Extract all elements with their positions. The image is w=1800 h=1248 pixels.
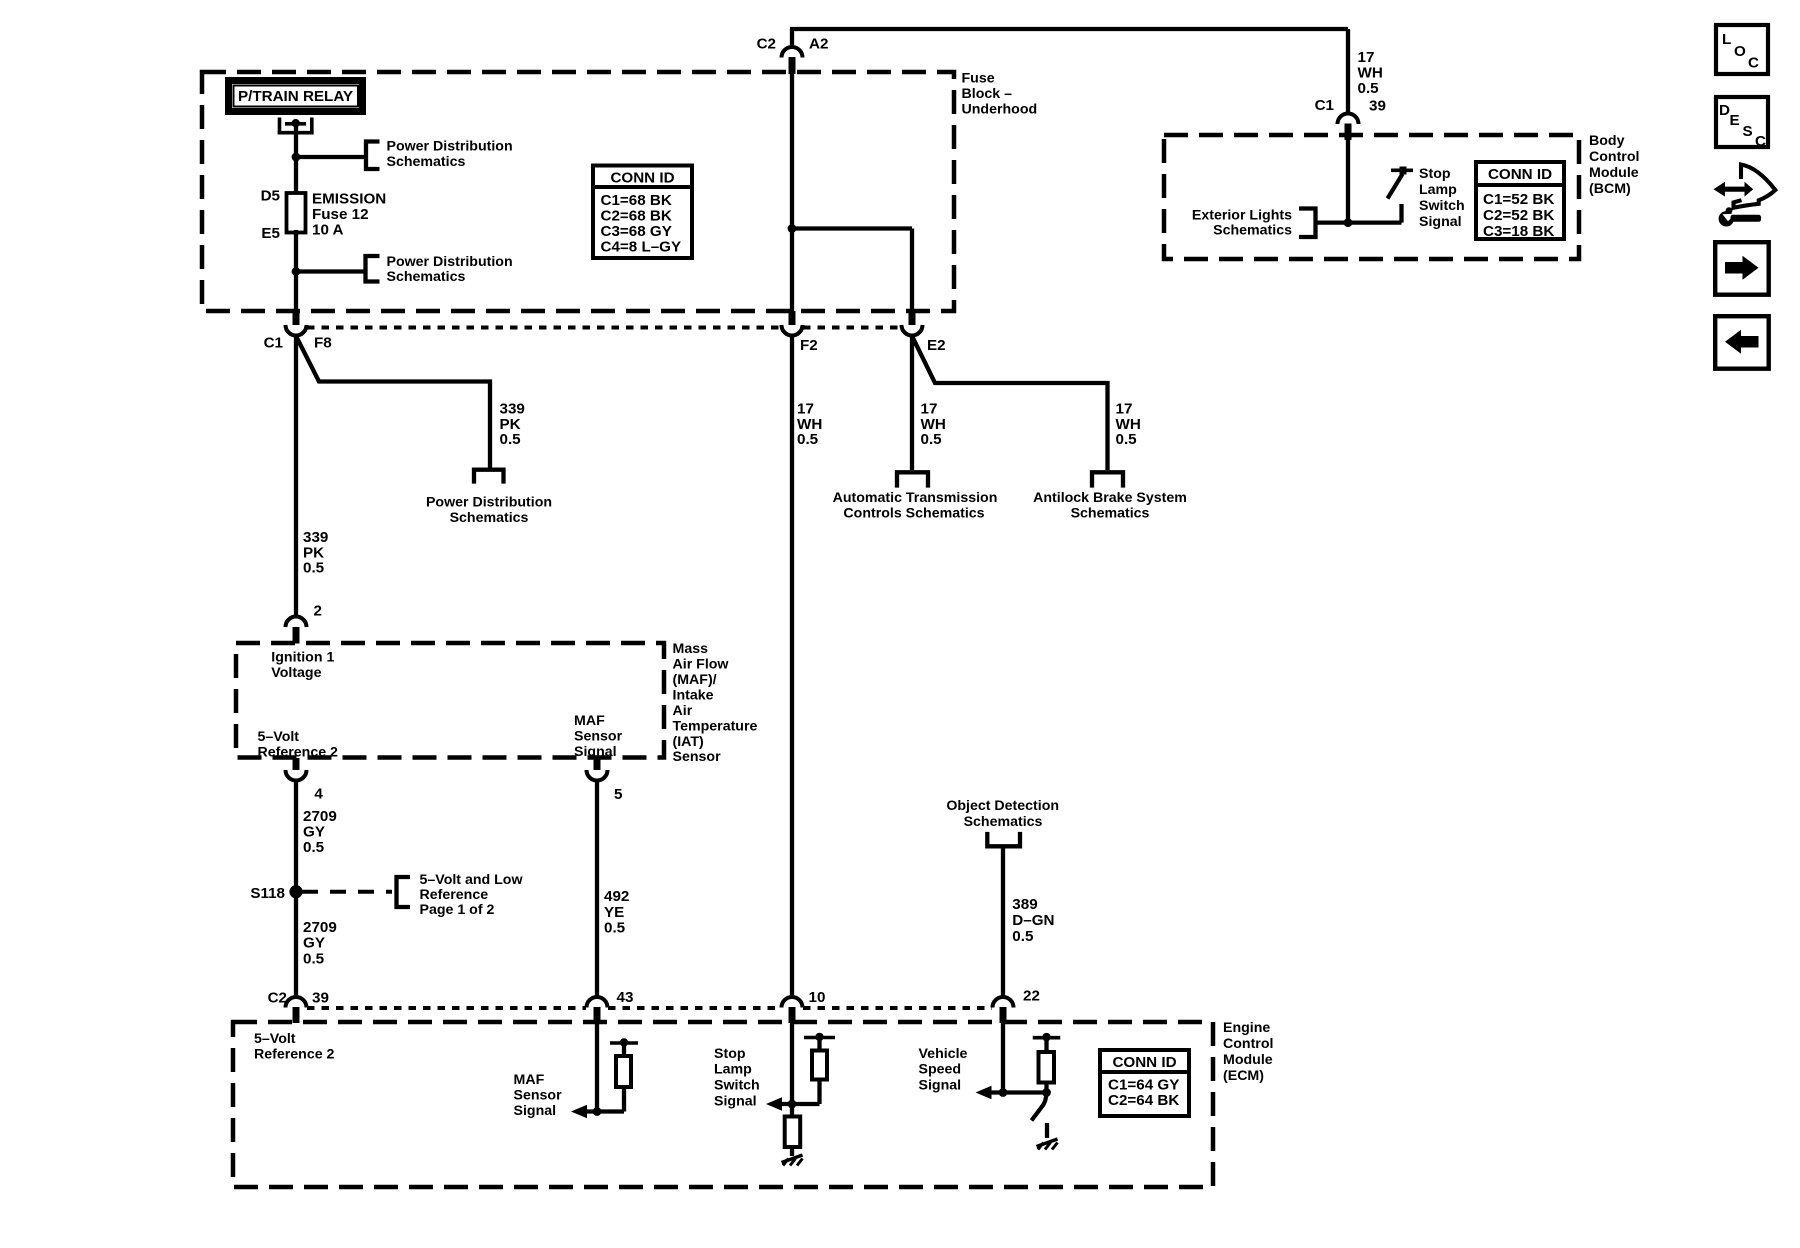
svg-text:0.5: 0.5 (303, 560, 325, 577)
svg-text:Intake: Intake (673, 688, 714, 704)
wire: splice reference (dashed) (302, 890, 392, 894)
svg-text:CONN ID: CONN ID (1488, 166, 1552, 183)
svg-text:C1: C1 (264, 335, 284, 352)
svg-text:C1=64 GY: C1=64 GY (1108, 1077, 1179, 1094)
svg-text:Air Flow: Air Flow (673, 657, 730, 673)
off-page bracket: Power Distribution (upper) (366, 142, 380, 170)
wire: branch over to E2 (792, 229, 912, 313)
svg-text:GY: GY (303, 824, 325, 841)
connector: MAF pin 5 (cup) (587, 770, 608, 781)
svg-text:(IAT): (IAT) (673, 734, 705, 750)
svg-text:Signal: Signal (514, 1103, 557, 1119)
resistor: stop lamp pull-down (785, 1117, 801, 1148)
off-page bracket: 5-Volt and Low Reference (397, 877, 411, 907)
label: circuit 17 WH 0.5 (top right wire) (1358, 49, 1383, 97)
svg-text:Sensor: Sensor (673, 749, 722, 765)
arrow: stop lamp switch signal (points left) (766, 1097, 782, 1111)
icon: diagnostic double-arrow (1714, 182, 1754, 197)
wire: ECM pin 43 to comparator (595, 1023, 599, 1112)
label: circuit 339 PK 0.5 (branch) (500, 401, 525, 449)
wire: BCM internal from C1-39 down to junction (1346, 138, 1350, 223)
svg-text:Schematics: Schematics (450, 510, 529, 526)
node: junction to E2 branch (788, 224, 797, 233)
svg-text:Sensor: Sensor (514, 1088, 563, 1104)
supply: internal voltage (pin 22) (1033, 1033, 1061, 1041)
svg-text:C1=68 BK: C1=68 BK (601, 192, 672, 209)
svg-text:Sensor: Sensor (574, 729, 623, 745)
svg-text:WH: WH (1358, 65, 1383, 82)
fuse EMISSION Fuse 12 10A (body) (287, 193, 306, 233)
svg-text:P/TRAIN RELAY: P/TRAIN RELAY (238, 88, 353, 105)
connector C1 terminal F8 (cup) (286, 325, 307, 336)
label: 5-Volt Reference 2 (ECM) (254, 1031, 335, 1063)
node: MAF signal junction (593, 1107, 602, 1116)
connector row: fuse block bottom (dotted) (307, 326, 901, 330)
splice S118 (289, 885, 302, 898)
connector E2 (cup) (902, 325, 923, 336)
pin: MAF pin 4 male terminal (293, 758, 300, 770)
svg-text:D: D (1719, 102, 1730, 119)
pin: ECM 43 male terminal (594, 1007, 601, 1023)
pin: fuse block C2-A2 male terminal (789, 57, 796, 74)
svg-text:Controls Schematics: Controls Schematics (843, 506, 984, 522)
wire: battery positive feed from C2/A2 to BCM C1 (top run) (790, 29, 1348, 113)
wire: resistor to supply (pin 10) (817, 1038, 821, 1051)
svg-text:0.5: 0.5 (303, 839, 325, 856)
label: circuit 389 D-GN 0.5 (1012, 896, 1054, 945)
wire: MAF signal arrow line (584, 1109, 624, 1113)
label: Mass Air Flow (MAF)/ Intake Air Temperature (IAT) Sensor (673, 641, 758, 765)
svg-text:Engine: Engine (1223, 1020, 1270, 1036)
svg-text:5: 5 (614, 786, 623, 803)
svg-text:389: 389 (1012, 896, 1037, 913)
label: Body Control Module (BCM) (1589, 133, 1639, 197)
svg-text:(ECM): (ECM) (1223, 1068, 1264, 1084)
svg-text:C2=52 BK: C2=52 BK (1483, 207, 1554, 224)
module box: Body Control Module (dashed) (1164, 135, 1579, 259)
svg-text:F8: F8 (314, 335, 332, 352)
svg-text:0.5: 0.5 (500, 431, 522, 448)
wire: object detection to ECM 22 (1001, 846, 1005, 997)
svg-text:MAF: MAF (574, 713, 605, 729)
node: switch top junction (pin 22) (1042, 1088, 1051, 1097)
svg-text:5–Volt: 5–Volt (254, 1031, 296, 1047)
pin: ECM C2-39 male terminal (293, 1007, 300, 1023)
pin: F2 male terminal (789, 311, 796, 325)
svg-text:Lamp: Lamp (714, 1062, 752, 1078)
switch: stop lamp switch (inside BCM) (1388, 167, 1414, 223)
svg-text:C2: C2 (757, 36, 776, 53)
svg-text:Lamp: Lamp (1419, 182, 1457, 198)
wire: pin 10 to pull-down resistor (790, 1104, 794, 1117)
wire: F2 down to ECM pin 10 (790, 336, 794, 997)
module box: Fuse Block - Underhood (dashed) (202, 72, 954, 311)
svg-text:Vehicle: Vehicle (919, 1046, 968, 1062)
svg-text:S118: S118 (250, 885, 285, 902)
svg-text:Stop: Stop (1419, 166, 1451, 182)
svg-text:Module: Module (1223, 1052, 1273, 1068)
label: Vehicle Speed Signal (ECM) (919, 1046, 968, 1094)
relay box: P/TRAIN RELAY (229, 81, 363, 112)
svg-text:Signal: Signal (919, 1078, 962, 1094)
svg-text:Reference 2: Reference 2 (254, 1047, 335, 1063)
off-page bracket: Automatic Transmission (down) (897, 472, 928, 487)
svg-text:2709: 2709 (303, 808, 337, 825)
label: Exterior Lights Schematics (1192, 207, 1292, 238)
wire: F8 diagonal branch to Power Distribution (296, 336, 490, 468)
label: Engine Control Module (ECM) (1223, 1020, 1273, 1084)
connector ECM C2 terminal 39 (cup) (286, 997, 307, 1007)
icon: wrench (1719, 207, 1761, 226)
pin: MAF pin 2 male terminal (293, 627, 300, 644)
wire: ECM pin 10 to divider (790, 1023, 794, 1104)
svg-text:C: C (1755, 133, 1766, 150)
label: Object Detection Schematics (946, 798, 1059, 830)
pin: BCM C1-39 male terminal (1345, 124, 1352, 141)
svg-text:Block –: Block – (962, 86, 1013, 102)
label: Power Distribution Schematics (lower) (387, 254, 513, 285)
pin: C1-F8 male terminal (293, 311, 300, 325)
svg-text:CONN ID: CONN ID (1112, 1054, 1176, 1071)
connector ECM terminal 22 (cup) (993, 997, 1014, 1007)
label: Power Distribution Schematics (bottom) (426, 495, 552, 527)
svg-text:Air: Air (673, 703, 693, 719)
label: MAF Sensor Signal (ECM) (514, 1072, 563, 1119)
svg-text:Object Detection: Object Detection (946, 798, 1059, 814)
svg-text:Signal: Signal (574, 744, 617, 760)
svg-text:Body: Body (1589, 133, 1625, 149)
svg-text:10: 10 (809, 989, 826, 1006)
label: Ignition 1 Voltage (271, 650, 334, 682)
connector: MAF pin 4 (cup) (286, 770, 307, 781)
svg-text:Exterior Lights: Exterior Lights (1192, 207, 1292, 223)
ground: VSS output driver (1037, 1139, 1058, 1150)
svg-text:0.5: 0.5 (921, 431, 943, 448)
icon: diagnostic outline shape (1734, 165, 1776, 208)
connector ECM terminal 43 (cup) (587, 997, 608, 1007)
wire: resistor to supply (pin 43) (622, 1043, 626, 1056)
label: Power Distribution Schematics (upper) (387, 139, 513, 171)
wire: supply to resistor (pin 22) (1044, 1038, 1048, 1052)
module box: Engine Control Module (dashed) (233, 1022, 1213, 1187)
wire: F8 to Ignition 1 Voltage (vertical) (294, 336, 298, 616)
node: BCM internal junction (1344, 218, 1353, 227)
wire: branch to Power Distribution (lower) (296, 269, 366, 273)
svg-text:Temperature: Temperature (673, 719, 758, 735)
connector: MAF pin 2 (cup) (286, 617, 307, 628)
svg-text:2: 2 (314, 603, 322, 620)
connector ECM terminal 10 (cup) (782, 997, 803, 1007)
svg-text:Schematics: Schematics (1213, 222, 1292, 238)
label: MAF Sensor Signal (sensor side) (574, 713, 623, 760)
label: circuit 2709 GY 0.5 (lower) (303, 919, 337, 967)
svg-text:17: 17 (1358, 49, 1375, 66)
svg-text:0.5: 0.5 (797, 431, 819, 448)
connector row: ECM top (dotted) (307, 1006, 992, 1010)
svg-text:Power Distribution: Power Distribution (387, 254, 513, 270)
label: Stop Lamp Switch Signal (ECM) (714, 1046, 760, 1110)
svg-text:Reference: Reference (420, 887, 489, 903)
svg-text:O: O (1734, 43, 1746, 60)
label: circuit 2709 GY 0.5 (upper) (303, 808, 337, 856)
svg-text:22: 22 (1023, 988, 1040, 1005)
pin: E2 male terminal (909, 311, 916, 325)
label: circuit 492 YE 0.5 (604, 888, 629, 937)
svg-text:Underhood: Underhood (962, 102, 1038, 118)
connector F2 (cup) (782, 325, 803, 336)
off-page bracket: Power Distribution (lower) (366, 256, 380, 282)
node: vehicle speed junction (999, 1088, 1008, 1097)
svg-text:C4=8 L–GY: C4=8 L–GY (601, 239, 682, 256)
wire: vehicle speed arrow line (988, 1090, 1047, 1094)
svg-text:E5: E5 (261, 225, 280, 242)
label: circuit 339 PK 0.5 (ignition feed) (303, 529, 328, 577)
svg-text:Automatic Transmission: Automatic Transmission (833, 490, 998, 506)
node: junction above fuse (292, 153, 301, 162)
svg-text:Switch: Switch (1419, 198, 1465, 214)
ground: stop lamp divider (782, 1155, 803, 1166)
label: 5-Volt and Low Reference Page 1 of 2 (420, 872, 524, 918)
wire: 5-volt reference 2 from pin 4 to ECM C2-39 (294, 781, 298, 997)
svg-text:Power Distribution: Power Distribution (387, 139, 513, 155)
svg-text:Fuse 12: Fuse 12 (312, 206, 369, 223)
wire: ECM pin 22 to VSS buffer (1001, 1023, 1005, 1093)
wire: MAF sensor signal pin 5 to ECM 43 (595, 781, 599, 997)
svg-text:5–Volt and Low: 5–Volt and Low (420, 872, 524, 888)
wire: branch to Power Distribution (upper) (296, 155, 366, 159)
arrow: MAF sensor signal (points left) (571, 1105, 587, 1119)
wire: stop lamp arrow line (779, 1102, 820, 1106)
svg-text:GY: GY (303, 935, 325, 952)
svg-text:Power Distribution: Power Distribution (426, 495, 552, 511)
svg-text:Signal: Signal (714, 1094, 757, 1110)
icon: LOC box (1716, 25, 1768, 74)
wire: pull-down to ground (790, 1147, 794, 1156)
label: EMISSION Fuse 12 10 A (312, 191, 386, 239)
node: junction below fuse (292, 267, 301, 276)
icon: DESC box (1716, 97, 1768, 150)
wire: relay output down to fuse (vertical) (294, 123, 298, 195)
svg-text:C2=68 BK: C2=68 BK (601, 208, 672, 225)
supply: internal voltage (pin 43) (610, 1038, 638, 1046)
wire: pull-up resistor leg (pin 43) (622, 1087, 626, 1112)
label: Stop Lamp Switch Signal (BCM) (1419, 166, 1465, 230)
svg-text:2709: 2709 (303, 919, 337, 936)
svg-text:39: 39 (312, 990, 329, 1007)
svg-text:Schematics: Schematics (387, 154, 466, 170)
svg-text:E: E (1730, 112, 1740, 129)
svg-text:492: 492 (604, 888, 629, 905)
svg-text:F2: F2 (800, 337, 818, 354)
relay contact symbol (P/TRAIN relay output) (278, 118, 314, 135)
svg-text:C1=52 BK: C1=52 BK (1483, 191, 1554, 208)
svg-text:CONN ID: CONN ID (610, 170, 674, 187)
svg-text:EMISSION: EMISSION (312, 191, 386, 208)
resistor: stop lamp pull-up (812, 1051, 827, 1080)
svg-text:39: 39 (1369, 98, 1386, 115)
off-page bracket: Object Detection (up) (987, 832, 1020, 846)
supply: internal voltage (pin 10) (804, 1033, 835, 1041)
table: CONN ID (fuse block) (593, 166, 692, 259)
svg-text:S: S (1743, 123, 1753, 140)
svg-text:4: 4 (314, 786, 323, 803)
svg-text:D–GN: D–GN (1012, 912, 1054, 929)
svg-text:Control: Control (1589, 149, 1639, 165)
svg-text:C: C (1748, 55, 1759, 72)
wire: E2 diagonal branch to Antilock Brake (912, 336, 1108, 470)
svg-text:Module: Module (1589, 165, 1639, 181)
svg-text:0.5: 0.5 (1116, 431, 1138, 448)
off-page bracket: Antilock Brake System (down) (1092, 472, 1123, 487)
svg-text:43: 43 (617, 989, 634, 1006)
svg-text:Mass: Mass (673, 641, 709, 657)
svg-text:0.5: 0.5 (1012, 928, 1034, 945)
svg-text:10 A: 10 A (312, 222, 344, 239)
wire: resistor to switch (pin 22) (1044, 1083, 1048, 1093)
svg-text:L: L (1722, 31, 1731, 48)
label: Automatic Transmission Controls Schematics (833, 490, 998, 522)
wire: driver source to ground stub (1045, 1123, 1049, 1138)
svg-text:Schematics: Schematics (387, 269, 466, 285)
off-page bracket: Exterior Lights (opens left) (1299, 209, 1316, 238)
wire: E2 down to Automatic Transmission (910, 336, 914, 470)
svg-text:Fuse: Fuse (962, 71, 995, 87)
svg-text:(BCM): (BCM) (1589, 181, 1631, 197)
svg-text:Schematics: Schematics (964, 814, 1043, 830)
svg-text:Switch: Switch (714, 1078, 760, 1094)
svg-text:C2=64 BK: C2=64 BK (1108, 1092, 1179, 1109)
icon: back arrow box (1715, 316, 1769, 369)
svg-text:0.5: 0.5 (604, 920, 626, 937)
svg-text:Signal: Signal (1419, 214, 1462, 230)
svg-text:MAF: MAF (514, 1072, 545, 1088)
pin: MAF pin 5 male terminal (594, 758, 601, 770)
svg-text:C1: C1 (1315, 97, 1335, 114)
svg-text:A2: A2 (809, 36, 828, 53)
table: CONN ID (BCM) (1476, 162, 1564, 240)
connector BCM C1 terminal 39 (cup) (1338, 114, 1359, 124)
svg-text:Schematics: Schematics (1071, 506, 1150, 522)
icon: forward arrow box (1715, 242, 1769, 295)
svg-text:Control: Control (1223, 1036, 1273, 1052)
svg-text:0.5: 0.5 (303, 950, 325, 967)
resistor: vehicle speed pull-up (1039, 1052, 1055, 1083)
wire: BCM internal horizontal to switch (1316, 220, 1402, 224)
svg-text:Stop: Stop (714, 1046, 746, 1062)
svg-text:C3=18 BK: C3=18 BK (1483, 223, 1554, 240)
node: stop lamp junction (788, 1100, 797, 1109)
svg-text:YE: YE (604, 904, 624, 921)
svg-text:0.5: 0.5 (1358, 80, 1380, 97)
svg-text:Voltage: Voltage (271, 665, 321, 681)
module box: MAF/IAT Sensor (dashed) (236, 643, 664, 758)
table: CONN ID (ECM) (1100, 1050, 1189, 1116)
svg-text:C2: C2 (268, 990, 287, 1007)
svg-text:D5: D5 (261, 188, 281, 205)
arrow: vehicle speed signal (points left) (976, 1086, 992, 1100)
svg-text:Speed: Speed (919, 1062, 962, 1078)
svg-text:E2: E2 (927, 337, 946, 354)
wire: fuse output down to C1/F8 (294, 230, 298, 312)
pin: ECM 22 male terminal (1000, 1007, 1007, 1023)
pin: ECM 10 male terminal (789, 1007, 796, 1023)
label: circuit 17 WH 0.5 (E2 wire) (921, 401, 946, 449)
svg-text:Ignition 1: Ignition 1 (271, 650, 334, 666)
svg-text:5–Volt: 5–Volt (258, 729, 300, 745)
svg-text:(MAF)/: (MAF)/ (673, 672, 717, 688)
svg-text:Antilock Brake System: Antilock Brake System (1033, 490, 1187, 506)
label: 5-Volt Reference 2 (MAF) (258, 729, 339, 761)
label: circuit 17 WH 0.5 (F2 wire) (797, 401, 822, 449)
wire: pull-up resistor leg (pin 10) (817, 1080, 821, 1105)
wire: C2/A2 feed down to F2 inside fuse block (790, 74, 794, 312)
svg-text:C3=68 GY: C3=68 GY (601, 223, 672, 240)
off-page bracket: Power Distribution Schematics (down) (474, 470, 504, 484)
connector C2 terminal A2 (cup) (782, 47, 803, 58)
label: Fuse Block - Underhood (962, 71, 1038, 118)
label: Antilock Brake System Schematics (1033, 490, 1187, 522)
resistor: MAF signal pull-up (616, 1056, 631, 1087)
switch: VSS output driver lever (1032, 1093, 1047, 1121)
svg-text:Page 1 of 2: Page 1 of 2 (420, 902, 495, 918)
label: circuit 17 WH 0.5 (ABS wire) (1116, 401, 1141, 449)
